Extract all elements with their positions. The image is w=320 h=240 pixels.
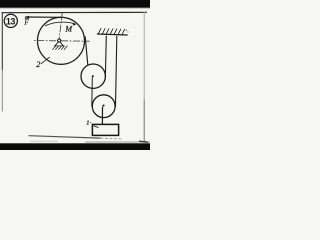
- svg-text:1: 1: [86, 119, 89, 126]
- svg-text:M: M: [64, 25, 73, 34]
- svg-text:13: 13: [6, 17, 16, 27]
- svg-text:F: F: [23, 18, 29, 26]
- svg-text:2: 2: [36, 60, 40, 69]
